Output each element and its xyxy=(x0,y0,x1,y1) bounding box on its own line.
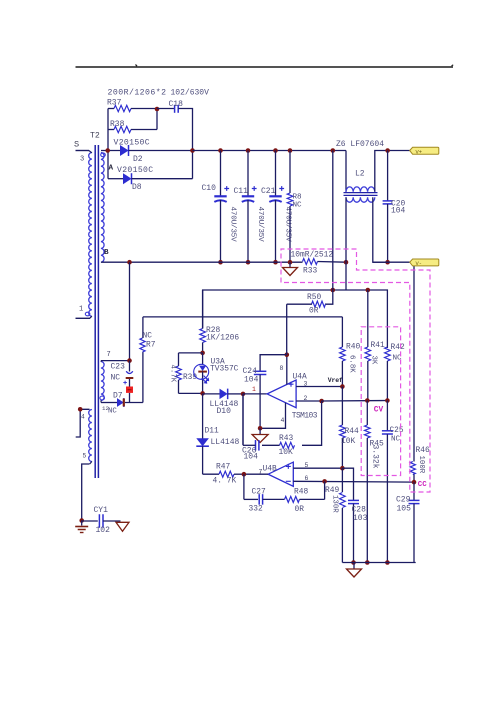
svg-text:R41: R41 xyxy=(371,341,385,350)
label U4B xyxy=(263,465,277,474)
label 103 C28 xyxy=(353,514,368,523)
svg-text:U4B: U4B xyxy=(263,465,277,474)
svg-text:10K: 10K xyxy=(279,448,293,457)
svg-text:NC: NC xyxy=(391,436,401,444)
wire D2 cathode to rail xyxy=(129,150,194,152)
svg-text:R33: R33 xyxy=(303,267,317,276)
wire bottom rail xyxy=(342,562,415,564)
svg-text:470U/35V: 470U/35V xyxy=(229,207,237,243)
U4B pin5 wire xyxy=(293,467,342,469)
wire CC vertical xyxy=(413,265,415,462)
label 7 xyxy=(107,351,111,359)
ground bottom xyxy=(347,563,362,578)
svg-text:0R: 0R xyxy=(295,505,305,514)
svg-text:C10: C10 xyxy=(202,184,217,193)
label NC R42 xyxy=(393,355,403,363)
wire to Vminus connector xyxy=(373,261,410,263)
label R28 xyxy=(206,326,220,335)
svg-text:1: 1 xyxy=(79,306,83,314)
wire B rail xyxy=(101,261,303,263)
label D7 xyxy=(113,392,123,401)
label R48 xyxy=(294,488,308,497)
junction C21 bottom xyxy=(273,260,278,265)
junction C20 bottom xyxy=(385,260,390,265)
svg-text:4: 4 xyxy=(281,417,285,424)
svg-text:C18: C18 xyxy=(169,100,184,109)
wire L2 top-left lead xyxy=(345,151,347,192)
label B xyxy=(104,249,109,257)
label 5 xyxy=(83,453,87,460)
label R47 xyxy=(216,463,230,472)
label pin1 xyxy=(252,386,256,393)
svg-text:6: 6 xyxy=(305,475,309,482)
diode D2 V20150C xyxy=(120,145,129,156)
label LL4148 D10 xyxy=(210,400,239,409)
resistor R47 xyxy=(203,471,244,477)
label TSM103 xyxy=(292,412,318,421)
svg-text:8: 8 xyxy=(280,365,284,372)
junction A-rail D2 anode xyxy=(105,148,110,153)
svg-text:A: A xyxy=(109,165,114,173)
junction U4B out node xyxy=(242,472,247,477)
label C18 xyxy=(169,100,184,109)
resistor R48 0R xyxy=(263,481,325,502)
svg-text:104: 104 xyxy=(244,376,259,385)
svg-text:Vref: Vref xyxy=(328,377,343,384)
capacitor C18 xyxy=(175,105,179,113)
op-amp U4A TSM103 xyxy=(267,380,296,408)
wire supply rail y290 xyxy=(203,290,388,348)
svg-text:NC: NC xyxy=(111,374,121,383)
label 6.8K R40 xyxy=(348,355,356,373)
junction C10 top xyxy=(218,148,223,153)
svg-text:3: 3 xyxy=(80,156,84,164)
svg-text:3.32k: 3.32k xyxy=(371,445,380,469)
label 12 xyxy=(102,405,109,412)
inductor L2 winding top xyxy=(346,187,375,192)
ground at C24 xyxy=(252,428,268,442)
junction R37-C18 xyxy=(155,107,160,112)
svg-text:T2: T2 xyxy=(90,132,100,141)
label C26 xyxy=(242,447,257,456)
resistor R46 100R xyxy=(410,462,415,483)
op-amp U4B TSM103 xyxy=(268,462,293,486)
label R46 xyxy=(416,446,430,455)
svg-text:0R: 0R xyxy=(309,307,319,316)
resistor R40 xyxy=(340,317,346,387)
dashed box CV group xyxy=(361,327,400,476)
resistor R41 xyxy=(365,290,371,401)
resistor R33 10mR xyxy=(303,259,347,265)
svg-text:470U/35V: 470U/35V xyxy=(256,207,264,243)
label 0R R48 xyxy=(295,505,305,514)
junction rail feed xyxy=(331,288,336,293)
wire A-rail left vertical xyxy=(107,109,109,179)
label 130R R49 xyxy=(331,495,339,513)
capacitor C21 xyxy=(269,151,284,263)
capacitor C27 xyxy=(244,474,263,504)
resistor R8 xyxy=(287,151,293,263)
header rule xyxy=(76,65,454,68)
svg-text:V20150C: V20150C xyxy=(114,139,150,148)
label S xyxy=(74,140,79,150)
wire winding2 bottom xyxy=(101,400,117,402)
wire opto box bottom xyxy=(179,392,203,394)
transformer T2 core xyxy=(95,145,98,478)
svg-text:105: 105 xyxy=(397,505,412,514)
diode D10 LL4148 xyxy=(203,389,243,400)
label LL4148 D11 xyxy=(211,438,240,447)
svg-text:R8: R8 xyxy=(293,194,303,202)
label pin3 xyxy=(304,381,308,388)
svg-text:L2: L2 xyxy=(355,170,365,179)
label 104 C20 xyxy=(391,207,405,216)
svg-text:LL4148: LL4148 xyxy=(211,438,240,447)
label 3.32k R45 xyxy=(371,445,380,469)
dashed box sense region xyxy=(281,249,430,492)
svg-text:102/630V: 102/630V xyxy=(171,89,210,98)
resistor R49 130R xyxy=(340,468,346,562)
svg-text:R7: R7 xyxy=(146,341,156,350)
transformer T2 primary winding (pins 3-1) xyxy=(89,153,92,317)
svg-text:R38: R38 xyxy=(110,120,125,129)
label R40 xyxy=(346,343,360,352)
junction CV R41 xyxy=(365,398,370,403)
junction pin2 node xyxy=(319,399,324,404)
svg-text:C23: C23 xyxy=(111,363,126,372)
svg-text:200R/1206*2: 200R/1206*2 xyxy=(108,88,167,98)
svg-text:100R: 100R xyxy=(417,456,425,474)
label R38 xyxy=(110,120,125,129)
label 10mR/2512 xyxy=(291,251,334,260)
label A xyxy=(109,165,114,173)
junction feed down xyxy=(331,148,336,153)
wire C18 right down xyxy=(178,109,192,151)
diode D8 V20150C xyxy=(108,151,193,185)
phase dot pin1 side xyxy=(85,312,90,316)
svg-text:5: 5 xyxy=(305,462,309,469)
label NC R7 xyxy=(143,332,153,341)
resistor R50 0R xyxy=(287,290,333,355)
capacitor C23 NC xyxy=(123,361,133,387)
pin 1 stub xyxy=(76,316,92,318)
svg-text:C27: C27 xyxy=(252,488,266,497)
U4B out wire xyxy=(244,473,268,475)
svg-text:D10: D10 xyxy=(217,407,232,416)
wire out node down xyxy=(242,394,244,445)
capacitor C26 xyxy=(243,394,259,451)
capacitor C11 xyxy=(242,151,257,263)
optocoupler U3A LED xyxy=(194,353,210,394)
label R50 xyxy=(307,293,321,302)
svg-text:130R: 130R xyxy=(331,495,339,513)
svg-text:R47: R47 xyxy=(216,463,230,472)
label C20 xyxy=(391,200,405,209)
label NC C25 xyxy=(391,436,401,444)
resistor R38 xyxy=(108,109,157,133)
label 104 C24 xyxy=(244,376,259,385)
label R7 xyxy=(146,341,156,350)
junction C28 bottom xyxy=(351,560,356,565)
earth ground xyxy=(75,521,88,533)
resistor R43 xyxy=(262,442,295,448)
diode D11 LL4148 xyxy=(196,394,209,474)
label C21 xyxy=(261,187,276,196)
svg-text:R50: R50 xyxy=(307,293,321,302)
phase dot winding2 bottom xyxy=(100,396,105,400)
svg-text:7: 7 xyxy=(107,351,111,359)
svg-text:R46: R46 xyxy=(416,446,430,455)
capacitor C28 xyxy=(342,468,359,562)
pin 3 stub net S xyxy=(76,151,92,153)
junction R8 top xyxy=(288,148,293,153)
label T2 xyxy=(90,132,100,141)
svg-text:V-: V- xyxy=(416,261,422,267)
chassis ground CY1 xyxy=(116,522,129,531)
svg-text:4. 7K: 4. 7K xyxy=(213,477,237,486)
resistor R45 xyxy=(365,401,371,563)
label V20150C D8 xyxy=(117,166,153,175)
label R44 xyxy=(345,427,359,436)
label pin6 xyxy=(305,475,309,482)
svg-text:C29: C29 xyxy=(396,496,411,505)
label NC C23 xyxy=(111,374,121,383)
junction Vref node xyxy=(340,384,345,389)
label C24 xyxy=(243,367,258,376)
capacitor C29 xyxy=(409,482,420,562)
wire L2 top-right lead xyxy=(375,151,388,192)
label R41 xyxy=(371,341,385,350)
label 470U/35V C11 xyxy=(256,207,264,243)
U4A pin3 wire xyxy=(296,386,342,388)
wire pin2 down xyxy=(302,401,322,445)
label TV357C xyxy=(210,365,239,374)
svg-text:R42: R42 xyxy=(391,343,405,352)
label C27 xyxy=(252,488,266,497)
label 470U/35V C10 xyxy=(229,207,237,243)
label pin7 xyxy=(259,469,263,476)
label NC pin12 xyxy=(108,408,117,416)
svg-text:D7: D7 xyxy=(113,392,123,401)
svg-text:NC: NC xyxy=(293,202,303,210)
connector V+ xyxy=(410,147,439,155)
label 4.7K R39 xyxy=(169,365,177,383)
wire to Vplus connector xyxy=(388,150,410,152)
label 100R R46 xyxy=(417,456,425,474)
label U4A xyxy=(293,373,307,382)
label pin2 xyxy=(304,395,308,402)
resistor R37 xyxy=(108,105,157,111)
wire L2 bottom-right lead xyxy=(373,197,388,262)
U4A pin8 wire xyxy=(286,355,288,385)
label R39 xyxy=(183,374,197,382)
pin 5 wire to CY1 xyxy=(82,461,92,520)
svg-text:1: 1 xyxy=(252,386,256,393)
junction pin5 node xyxy=(340,466,345,471)
wire opto box top xyxy=(179,352,203,354)
svg-text:R39: R39 xyxy=(183,374,197,382)
svg-text:2: 2 xyxy=(304,395,308,402)
svg-text:1K/1206: 1K/1206 xyxy=(206,334,239,343)
capacitor C25 NC xyxy=(382,401,393,563)
wire CV node xyxy=(322,400,388,403)
capacitor C10 xyxy=(214,151,229,263)
svg-text:6.8K: 6.8K xyxy=(348,355,356,373)
junction opto bottom xyxy=(200,391,205,396)
wire main rail top xyxy=(193,150,347,152)
ground under B rail xyxy=(283,262,298,275)
svg-text:3K: 3K xyxy=(370,356,378,365)
wire B to aux down xyxy=(345,262,347,290)
svg-text:Z6 LF07604: Z6 LF07604 xyxy=(336,140,384,149)
svg-text:D8: D8 xyxy=(132,183,142,192)
resistor R28 xyxy=(200,329,206,353)
svg-text:CC: CC xyxy=(418,481,427,489)
label 105 C29 xyxy=(397,505,412,514)
wire to C18 xyxy=(157,108,175,110)
junction U4A out node xyxy=(241,392,246,397)
label 104 C26 xyxy=(244,453,259,462)
no-connect marker red box xyxy=(126,387,133,393)
U4A pin4 wire xyxy=(260,403,285,429)
svg-text:CY1: CY1 xyxy=(94,506,109,515)
label Z6 LF07604 xyxy=(336,140,384,149)
svg-text:NC: NC xyxy=(108,408,117,416)
junction C10 bottom xyxy=(218,260,223,265)
label NC R8 xyxy=(293,202,303,210)
junction pin4 xyxy=(78,407,83,412)
svg-text:CV: CV xyxy=(374,407,384,415)
svg-text:B: B xyxy=(104,249,109,257)
phase dot winding1 top xyxy=(101,153,106,157)
svg-text:V20150C: V20150C xyxy=(117,166,153,175)
junction CC node xyxy=(412,480,417,485)
junction B-C23 branch xyxy=(127,260,132,265)
svg-text:R48: R48 xyxy=(294,488,308,497)
label 10K R44 xyxy=(341,437,355,446)
junction CY1 node xyxy=(79,518,84,523)
label CV xyxy=(374,407,384,415)
label D8 xyxy=(132,183,142,192)
transformer T2 secondary winding 1 (A-B) xyxy=(101,153,104,263)
label 3K R41 xyxy=(370,356,378,365)
svg-text:4: 4 xyxy=(81,414,85,421)
inductor L2 winding bottom xyxy=(346,197,375,202)
label U3A xyxy=(211,358,225,367)
transformer T2 secondary winding 2 (pins 7-12) xyxy=(101,362,104,401)
junction C24 gnd xyxy=(258,426,263,431)
svg-text:4.7K: 4.7K xyxy=(169,365,177,383)
label R33 xyxy=(303,267,317,276)
label R49 xyxy=(325,486,339,495)
svg-text:332: 332 xyxy=(249,505,263,514)
wire winding2 top xyxy=(101,361,130,362)
wire feed from top rail xyxy=(332,151,334,291)
label D11 xyxy=(205,427,219,436)
wire L2 bottom-left lead xyxy=(345,197,347,262)
label pin5 xyxy=(305,462,309,469)
junction CV R42 xyxy=(385,398,390,403)
svg-text:104: 104 xyxy=(391,207,405,216)
wire B to node7 xyxy=(129,262,131,360)
label D10 xyxy=(217,407,232,416)
svg-text:D11: D11 xyxy=(205,427,219,436)
label 200R/1206*2 xyxy=(108,88,167,98)
capacitor C20 xyxy=(383,151,393,263)
junction node7 xyxy=(127,358,132,363)
capacitor CY1 xyxy=(82,514,121,528)
junction C11 bottom xyxy=(246,260,251,265)
junction pin8 C24 xyxy=(285,352,290,357)
label 1 xyxy=(79,306,83,314)
wire out node to U4A xyxy=(243,393,267,395)
svg-text:TV357C: TV357C xyxy=(210,365,239,374)
U4A pin2 wire xyxy=(296,400,322,402)
junction R8 bottom xyxy=(288,260,293,265)
label R8 xyxy=(293,194,303,202)
svg-text:103: 103 xyxy=(353,514,368,523)
label 0R R50 xyxy=(309,307,319,316)
svg-text:TSM103: TSM103 xyxy=(292,412,318,421)
label L2 xyxy=(355,170,365,179)
label 10K R43 xyxy=(279,448,293,457)
svg-text:10K: 10K xyxy=(341,437,355,446)
junction C11 top xyxy=(246,148,251,153)
pin 4 stub xyxy=(76,409,90,437)
svg-text:NC: NC xyxy=(143,332,153,341)
label R42 xyxy=(391,343,405,352)
label R45 xyxy=(370,440,384,449)
label R37 xyxy=(107,99,122,108)
label pin4 xyxy=(281,417,285,424)
label R43 xyxy=(279,434,293,443)
U4B pin6 wire xyxy=(293,480,414,483)
wire R7 top to R40 top xyxy=(143,316,343,318)
svg-text:5: 5 xyxy=(83,453,87,460)
capacitor C24 xyxy=(254,355,287,429)
label C25 xyxy=(390,427,404,435)
svg-text:R43: R43 xyxy=(279,434,293,443)
junction L2 in- xyxy=(344,260,349,265)
wire red box to D7 net xyxy=(129,393,131,403)
label 470U/35V C21 xyxy=(284,207,292,243)
label 4.7K R47 xyxy=(213,477,237,486)
label V20150C D2 xyxy=(114,139,150,148)
label CY1 xyxy=(94,506,109,515)
svg-text:R40: R40 xyxy=(346,343,360,352)
svg-text:S: S xyxy=(74,140,79,150)
svg-text:3: 3 xyxy=(304,381,308,388)
label CC xyxy=(418,481,427,489)
svg-text:C21: C21 xyxy=(261,187,276,196)
junction C20 top xyxy=(385,148,390,153)
label 102/630V xyxy=(171,89,210,98)
resistor R39 xyxy=(176,353,182,394)
junction C21 top xyxy=(273,148,278,153)
junction R28 bottom xyxy=(200,351,205,356)
wire y290 start corner xyxy=(202,290,204,329)
label C10 xyxy=(202,184,217,193)
svg-text:R37: R37 xyxy=(107,99,122,108)
label Vref xyxy=(328,377,343,384)
junction C25 bottom xyxy=(385,560,390,565)
label 4 xyxy=(81,414,85,421)
wire A rail from winding xyxy=(101,150,120,152)
resistor R7 NC xyxy=(140,317,145,403)
label C29 xyxy=(396,496,411,505)
connector V- xyxy=(410,259,439,267)
svg-text:10mR/2512: 10mR/2512 xyxy=(291,251,334,260)
